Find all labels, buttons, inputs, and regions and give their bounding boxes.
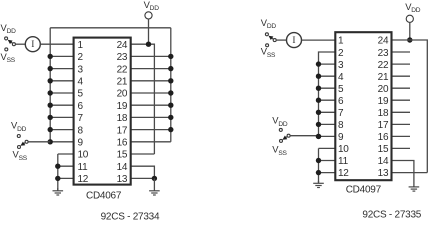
junction pin 8 bus dot bbox=[48, 127, 53, 132]
svg-text:9: 9 bbox=[338, 132, 344, 143]
svg-text:VSS: VSS bbox=[261, 46, 276, 59]
junction pin 6 dot U2 bbox=[316, 98, 321, 103]
junction pin 13 pin 14 dot bbox=[152, 176, 157, 181]
svg-text:VDD: VDD bbox=[1, 22, 17, 35]
wire pin 4 stub bbox=[50, 80, 73, 82]
wire pin 3 stub bbox=[50, 68, 73, 70]
wire pin 23 stub bbox=[131, 55, 171, 57]
svg-text:VDD: VDD bbox=[11, 120, 27, 133]
wire pin 6 stub bbox=[50, 104, 73, 106]
IC U2 CD4097 body bbox=[335, 32, 391, 180]
svg-text:23: 23 bbox=[378, 48, 389, 59]
wire switch S1 to ammeter bbox=[15, 43, 25, 45]
wire ammeter to pin 1 bbox=[41, 43, 74, 45]
svg-text:1: 1 bbox=[78, 40, 84, 51]
svg-text:22: 22 bbox=[117, 64, 128, 75]
switch S1 VDD/VSS bbox=[12, 43, 15, 46]
wire switch S4 to pin 9 U2 bbox=[290, 135, 318, 137]
wire pin 7 stub bbox=[50, 116, 73, 118]
svg-text:19: 19 bbox=[378, 96, 389, 107]
svg-text:24: 24 bbox=[117, 40, 128, 51]
wire VDD to pin 24 U2 bbox=[409, 22, 411, 40]
wire pin 9 stub U2 bbox=[319, 135, 336, 137]
IC U1 CD4067 body bbox=[74, 38, 131, 185]
wire pin 15 stub bbox=[131, 153, 155, 155]
svg-text:11: 11 bbox=[338, 156, 349, 167]
svg-text:VDD: VDD bbox=[405, 1, 421, 14]
svg-text:16: 16 bbox=[378, 132, 389, 143]
wire pins 10-12 bus U2 bbox=[318, 148, 320, 183]
wire VDD to pin 24 bbox=[148, 19, 150, 44]
wire pin 5 stub bbox=[50, 92, 73, 94]
junction pin 11 dot U2 bbox=[316, 158, 321, 163]
svg-text:21: 21 bbox=[117, 77, 128, 88]
junction pin 3 dot U2 bbox=[316, 61, 321, 66]
svg-text:21: 21 bbox=[378, 72, 389, 83]
svg-text:17: 17 bbox=[378, 120, 389, 131]
wire pin 22 stub U2 bbox=[392, 63, 411, 65]
wire pin 24 to pin 15 bbox=[131, 44, 155, 154]
svg-text:VDD: VDD bbox=[261, 17, 277, 30]
svg-text:15: 15 bbox=[117, 150, 128, 161]
svg-text:6: 6 bbox=[338, 96, 344, 107]
wire pin 17 stub bbox=[131, 129, 171, 131]
junction pin 2 bus dot bbox=[48, 54, 53, 59]
svg-text:13: 13 bbox=[117, 174, 128, 185]
svg-text:16: 16 bbox=[117, 138, 128, 149]
svg-text:19: 19 bbox=[117, 101, 128, 112]
svg-text:8: 8 bbox=[78, 125, 84, 136]
wire pin 15 stub U2 bbox=[392, 147, 411, 149]
wire pin 13 stub bbox=[131, 177, 155, 179]
wire pin 19 stub U2 bbox=[392, 99, 411, 101]
svg-text:92CS - 27335: 92CS - 27335 bbox=[362, 209, 421, 220]
svg-text:23: 23 bbox=[117, 52, 128, 63]
junction pin 6 bus dot bbox=[48, 103, 53, 108]
svg-text:10: 10 bbox=[338, 144, 349, 155]
wire pin 8 stub bbox=[50, 129, 73, 131]
svg-text:VDD: VDD bbox=[144, 0, 160, 12]
wire pin 24 to pin 13 U2 bbox=[392, 40, 428, 173]
junction VDD pin 24 dot U2 bbox=[407, 37, 412, 42]
svg-text:4: 4 bbox=[78, 77, 84, 88]
wire pin 5 stub U2 bbox=[319, 87, 336, 89]
svg-text:I: I bbox=[292, 36, 295, 46]
junction pin 12 dot bbox=[55, 176, 60, 181]
wire right bus pins 17-23 to 16 bbox=[170, 28, 172, 142]
wire pin 23 stub U2 bbox=[392, 51, 411, 53]
wire pin 4 stub U2 bbox=[319, 75, 336, 77]
svg-text:VDD: VDD bbox=[272, 115, 288, 128]
svg-text:VSS: VSS bbox=[272, 144, 287, 157]
wire pin 6 stub U2 bbox=[319, 99, 336, 101]
svg-text:6: 6 bbox=[78, 101, 84, 112]
junction pin 20 bus dot bbox=[168, 90, 173, 95]
junction pin 3 bus dot bbox=[48, 66, 53, 71]
svg-text:9: 9 bbox=[78, 138, 84, 149]
wire pin 2 stub bbox=[50, 55, 73, 57]
svg-text:12: 12 bbox=[78, 174, 89, 185]
switch S3 VDD/VSS bbox=[273, 39, 276, 42]
wire pin 17 stub U2 bbox=[392, 123, 411, 125]
junction pin 19 bus dot bbox=[168, 103, 173, 108]
svg-text:3: 3 bbox=[78, 64, 84, 75]
junction pin 12 dot U2 bbox=[316, 170, 321, 175]
wire pin 12 stub U2 bbox=[319, 172, 336, 174]
svg-text:18: 18 bbox=[117, 113, 128, 124]
wire pin 16 stub bbox=[131, 141, 171, 143]
svg-text:8: 8 bbox=[338, 120, 344, 131]
junction pin 5 bus dot bbox=[48, 90, 53, 95]
svg-text:1: 1 bbox=[338, 36, 344, 47]
wire pin 21 stub U2 bbox=[392, 75, 411, 77]
svg-text:20: 20 bbox=[378, 84, 389, 95]
svg-text:22: 22 bbox=[378, 60, 389, 71]
junction pin 11 dot bbox=[55, 164, 60, 169]
junction pin 8 dot U2 bbox=[316, 122, 321, 127]
svg-text:10: 10 bbox=[78, 150, 89, 161]
wire pin 12 stub bbox=[58, 177, 74, 179]
svg-text:20: 20 bbox=[117, 89, 128, 100]
svg-text:92CS - 27334: 92CS - 27334 bbox=[101, 212, 160, 221]
svg-text:13: 13 bbox=[378, 168, 389, 179]
wire pin 14 to pin 13 bbox=[131, 166, 155, 178]
svg-text:15: 15 bbox=[378, 144, 389, 155]
wire pin 22 stub bbox=[131, 68, 171, 70]
wire pin 7 stub U2 bbox=[319, 111, 336, 113]
wire pin 13 U2 bbox=[392, 172, 428, 174]
junction pin 5 dot U2 bbox=[316, 86, 321, 91]
wire pin 11 stub bbox=[58, 165, 74, 167]
wire pin 16 stub U2 bbox=[392, 135, 411, 137]
svg-text:7: 7 bbox=[338, 108, 344, 119]
svg-text:17: 17 bbox=[117, 125, 128, 136]
wire pin 3 stub U2 bbox=[319, 63, 336, 65]
junction pin 7 dot U2 bbox=[316, 110, 321, 115]
wire pins 10-12 bus bbox=[57, 154, 59, 191]
svg-text:5: 5 bbox=[78, 89, 84, 100]
wire top link bus bbox=[50, 27, 171, 29]
ground pins 10-12 U2 bbox=[318, 181, 320, 183]
svg-text:14: 14 bbox=[117, 162, 128, 173]
svg-text:7: 7 bbox=[78, 113, 84, 124]
wire pin 8 stub U2 bbox=[319, 123, 336, 125]
junction pin 9 dot U2 bbox=[316, 134, 321, 139]
svg-text:5: 5 bbox=[338, 84, 344, 95]
svg-text:3: 3 bbox=[338, 60, 344, 71]
junction pin 4 bus dot bbox=[48, 78, 53, 83]
terminal VDD U2 top circle bbox=[406, 15, 413, 22]
junction pin 9 bus dot bbox=[48, 139, 53, 144]
svg-text:2: 2 bbox=[338, 48, 344, 59]
svg-text:VSS: VSS bbox=[13, 149, 28, 162]
ground pin 14 U2 bbox=[413, 185, 415, 188]
svg-text:CD4097: CD4097 bbox=[346, 185, 382, 196]
wire ammeter to pin 1 U2 bbox=[302, 39, 336, 41]
ground pins 10-12 U1 bbox=[57, 188, 59, 191]
wire left bus pins 2-9 bbox=[49, 28, 51, 142]
wire pin 11 stub U2 bbox=[319, 160, 336, 162]
svg-text:14: 14 bbox=[378, 156, 389, 167]
terminal VDD U1 top circle bbox=[145, 12, 152, 19]
junction pin 9 dot U2 bbox=[316, 134, 321, 139]
switch S4 VDD/VSS bbox=[287, 134, 290, 137]
junction pin 18 bus dot bbox=[168, 115, 173, 120]
wire pin 10 stub U2 bbox=[319, 147, 336, 149]
svg-text:2: 2 bbox=[78, 52, 84, 63]
junction pin 23 bus dot bbox=[168, 54, 173, 59]
junction VDD pin 24 dot bbox=[146, 42, 151, 47]
wire pin 9 stub bbox=[50, 141, 73, 143]
svg-text:I: I bbox=[31, 40, 34, 50]
wire pin 14 to ground U2 bbox=[392, 161, 414, 187]
svg-text:11: 11 bbox=[78, 162, 89, 173]
wire pin 21 stub bbox=[131, 80, 171, 82]
junction pin 22 bus dot bbox=[168, 66, 173, 71]
wire pin 18 stub bbox=[131, 116, 171, 118]
svg-text:VSS: VSS bbox=[1, 51, 16, 64]
ground pin 13 U1 bbox=[153, 178, 155, 190]
ammeter M1 bbox=[25, 37, 40, 52]
svg-text:CD4067: CD4067 bbox=[86, 190, 122, 201]
wire pin 20 stub U2 bbox=[392, 87, 411, 89]
junction pin 7 bus dot bbox=[48, 115, 53, 120]
wire pin 19 stub bbox=[131, 104, 171, 106]
junction pin 4 dot U2 bbox=[316, 74, 321, 79]
wire left bus pins 2-9 U2 bbox=[319, 52, 336, 136]
svg-text:4: 4 bbox=[338, 72, 344, 83]
svg-text:24: 24 bbox=[378, 36, 389, 47]
ammeter M2 bbox=[287, 33, 302, 48]
junction pin 17 bus dot bbox=[168, 127, 173, 132]
wire switch S2 to pin 9 bbox=[28, 141, 50, 143]
svg-text:12: 12 bbox=[338, 168, 349, 179]
wire switch S3 to ammeter bbox=[276, 39, 286, 41]
wire pin 18 stub U2 bbox=[392, 111, 411, 113]
svg-text:18: 18 bbox=[378, 108, 389, 119]
wire pin 10 stub bbox=[58, 153, 74, 155]
switch S2 VDD/VSS bbox=[25, 140, 28, 143]
wire pin 20 stub bbox=[131, 92, 171, 94]
junction pin 21 bus dot bbox=[168, 78, 173, 83]
